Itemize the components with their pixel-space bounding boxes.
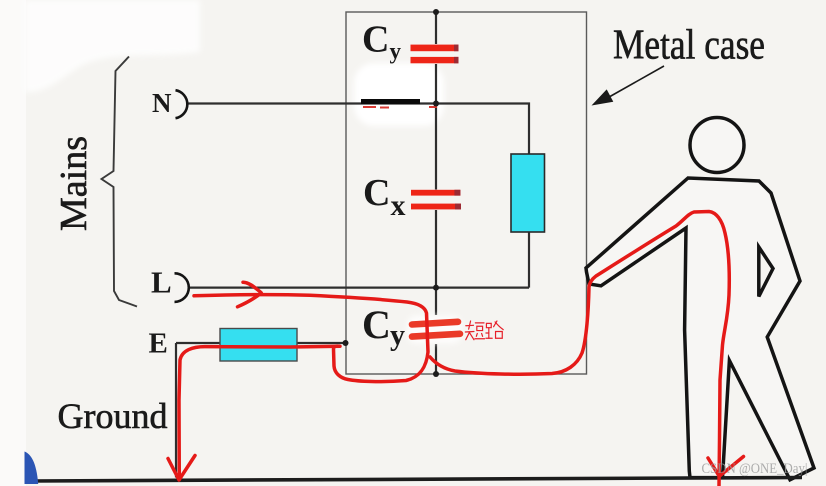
svg-text:C: C (362, 302, 391, 347)
svg-text:C: C (363, 172, 390, 214)
svg-text:Metal case: Metal case (613, 23, 765, 69)
svg-text:C: C (362, 19, 389, 61)
svg-text:CSDN @ONE_Day|: CSDN @ONE_Day| (702, 461, 808, 477)
svg-text:N: N (152, 88, 172, 118)
svg-text:E: E (149, 328, 168, 360)
svg-text:L: L (151, 265, 172, 300)
svg-text:Ground: Ground (58, 396, 168, 436)
svg-text:y: y (390, 38, 402, 63)
svg-text:y: y (390, 319, 405, 352)
svg-text:x: x (391, 189, 406, 222)
svg-text:Mains: Mains (53, 136, 95, 231)
